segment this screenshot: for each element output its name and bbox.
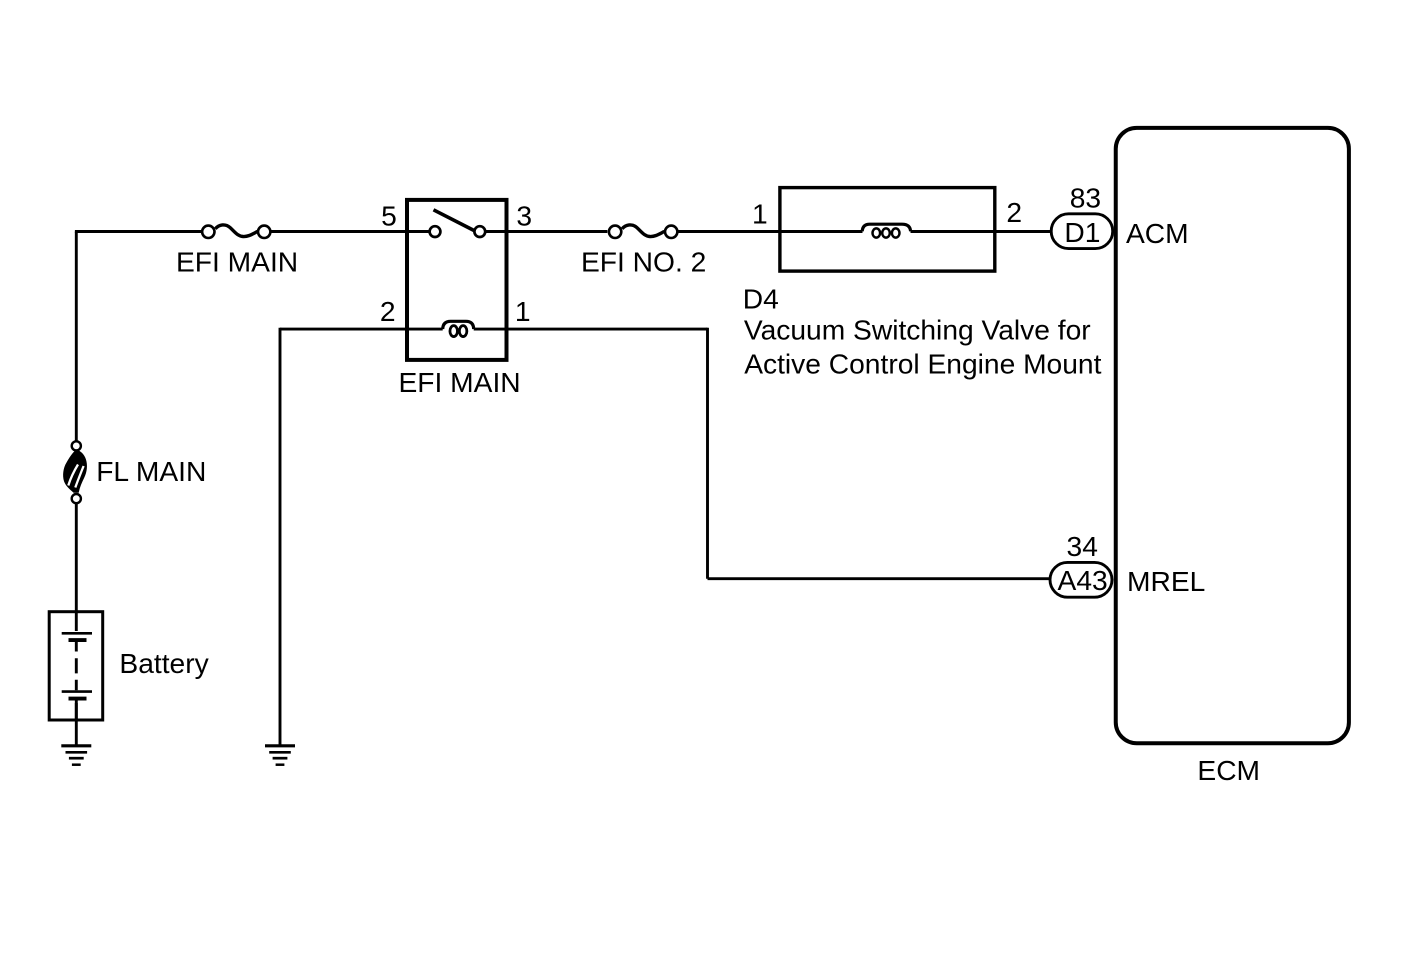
ground (relay coil) [265,746,295,765]
connector D1 (pin 83) [1051,214,1113,249]
wire: pin2 down to ground [279,328,282,745]
connector A43 (pin 34) [1050,562,1112,597]
relay EFI MAIN box [407,200,507,360]
svg-text:1: 1 [752,198,768,230]
relay switch contact right [474,226,485,237]
svg-text:3: 3 [516,200,532,232]
svg-text:EFI MAIN: EFI MAIN [176,246,298,278]
svg-text:Battery: Battery [119,647,209,679]
svg-text:D1: D1 [1064,216,1100,248]
svg-text:EFI MAIN: EFI MAIN [399,366,521,398]
svg-text:A43: A43 [1058,564,1108,596]
svg-text:ECM: ECM [1197,754,1260,786]
svg-text:FL MAIN: FL MAIN [96,455,206,487]
battery [49,612,102,720]
svg-text:D4: D4 [743,283,779,315]
wire: battery feed vertical (left) [75,232,78,746]
wire: relay coil row [280,328,708,331]
ground (battery) [61,746,91,765]
svg-text:Vacuum Switching Valve for: Vacuum Switching Valve for [744,314,1091,346]
wire: fuse2 to VSV [678,230,780,233]
wire: pin1 down and across to A43 [708,328,1050,579]
svg-text:2: 2 [380,295,396,327]
svg-text:Active Control Engine Mount: Active Control Engine Mount [744,348,1101,380]
relay switch contact left [430,226,441,237]
fusible link FL MAIN [63,441,87,503]
svg-text:5: 5 [381,200,397,232]
svg-text:34: 34 [1067,530,1098,562]
wire: through relay switch [485,230,607,233]
svg-text:1: 1 [515,295,531,327]
svg-text:2: 2 [1006,196,1022,228]
wire: through VSV [780,230,1051,233]
fuse EFI NO. 2 [609,225,678,238]
fuse EFI MAIN [202,225,270,238]
svg-text:MREL: MREL [1127,565,1205,597]
relay switch blade [434,210,475,231]
VSV coil [862,224,910,237]
VSV D4 box [780,188,995,272]
wire: top horizontal B+ run to relay [75,230,430,233]
svg-text:ACM: ACM [1126,217,1189,249]
ECM box [1116,128,1349,743]
relay coil [443,321,474,336]
svg-text:EFI NO. 2: EFI NO. 2 [581,246,706,278]
svg-text:83: 83 [1070,182,1101,214]
